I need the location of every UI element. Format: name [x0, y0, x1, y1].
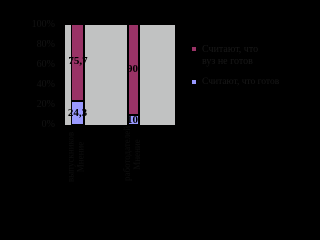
legend swatch 1 maroon	[191, 46, 197, 52]
bar 1 top segment (75,7) maroon	[71, 25, 86, 102]
data label 75,7	[58, 55, 99, 67]
y-axis labels	[0, 19, 55, 30]
data label 90	[112, 63, 153, 75]
legend swatch 2 periwinkle	[191, 79, 197, 85]
data label 10	[112, 114, 153, 126]
x-axis category label 1 (rotated)	[65, 130, 75, 185]
bar 2 top segment (90) maroon	[127, 25, 141, 116]
bar 1 bottom segment (24,3) periwinkle	[71, 101, 86, 126]
bar 2 bottom segment (10) periwinkle	[127, 114, 141, 126]
x-axis category label 2 (rotated)	[122, 128, 131, 181]
data label 24,3	[57, 107, 98, 119]
plot area	[65, 25, 175, 125]
legend text 2	[202, 77, 279, 87]
legend text 1	[202, 44, 258, 67]
